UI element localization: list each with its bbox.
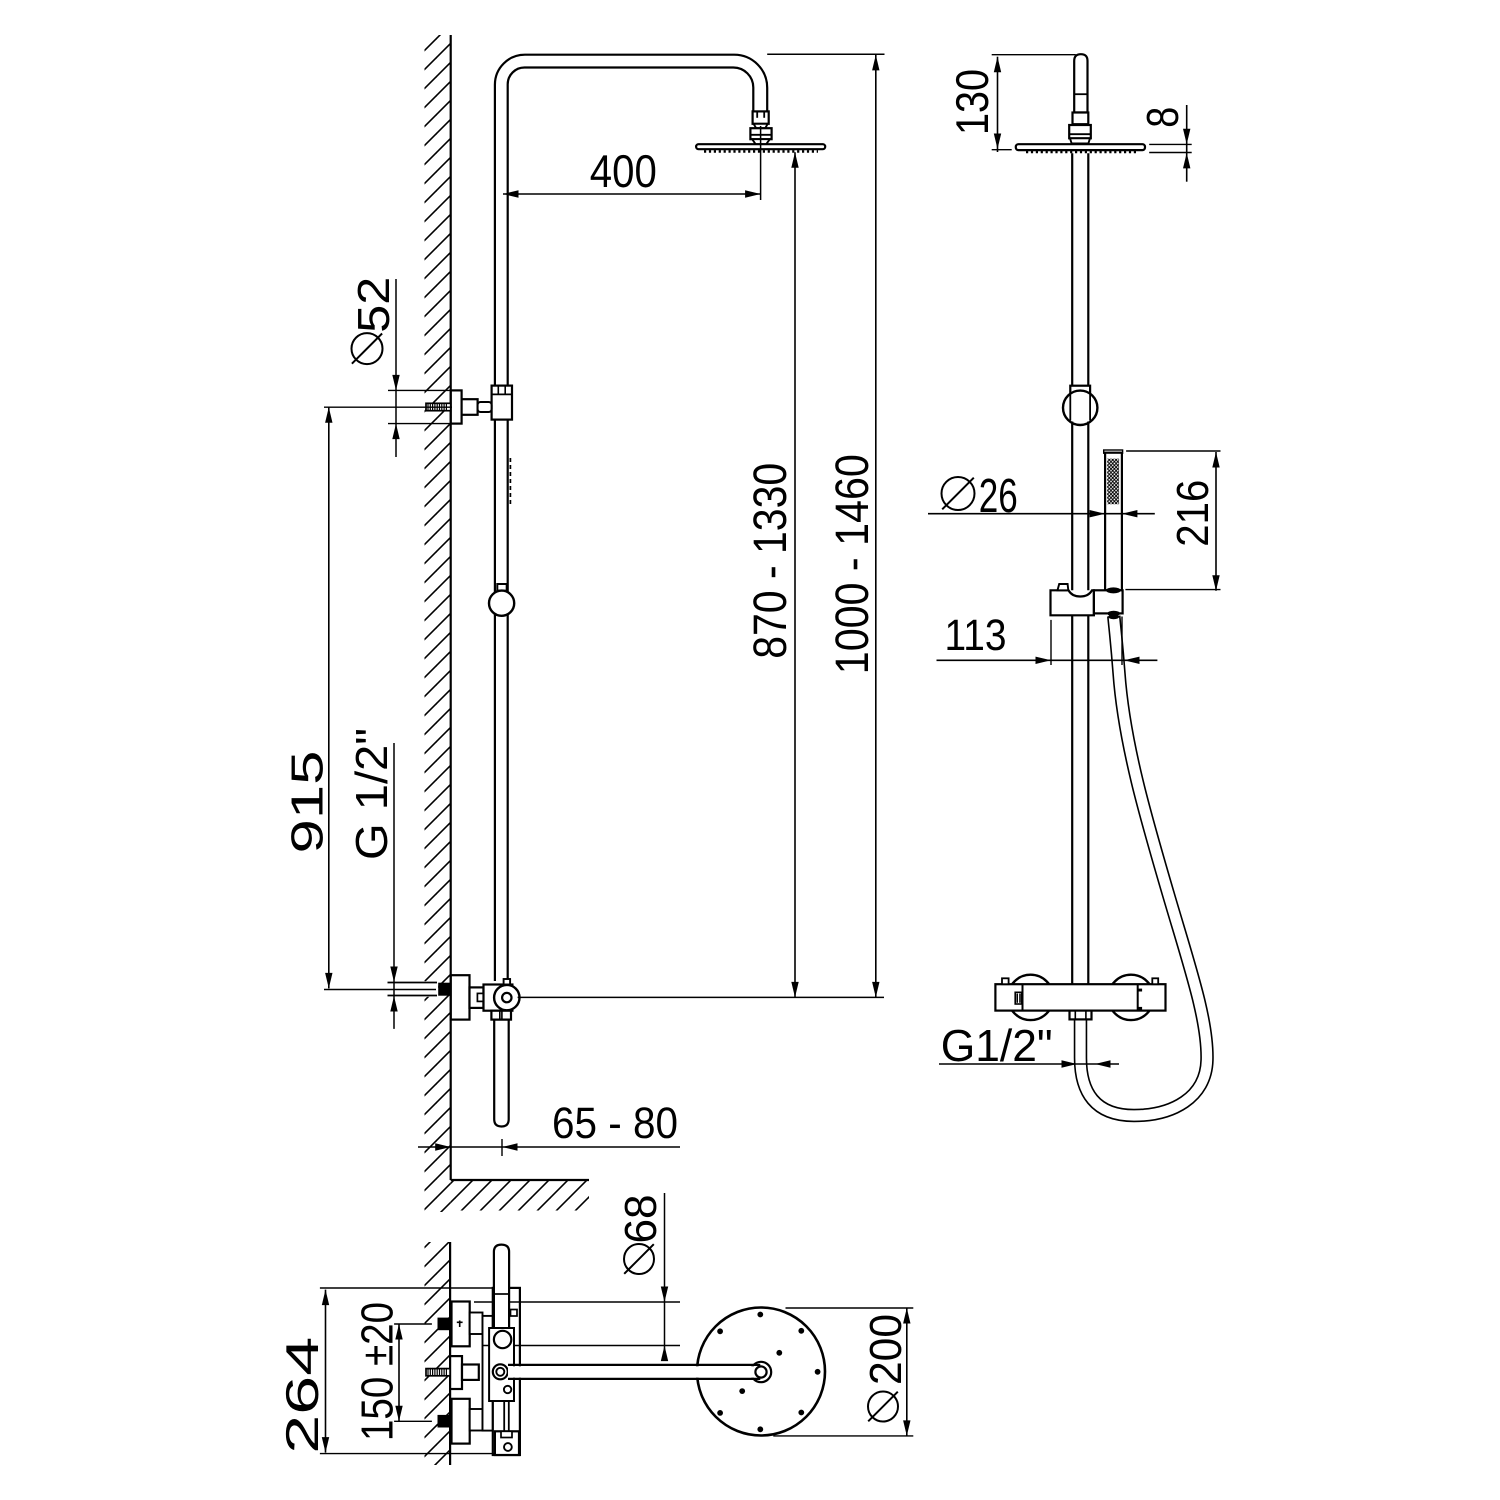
wall bracket ball joint (front view) [1063,391,1097,425]
top extension line (column top) [767,53,884,55]
svg-text:915: 915 [282,751,333,854]
riser pipe lower segment (front view) [1072,615,1088,984]
dimension 130 text [946,69,998,135]
shower head swivel cone [754,124,768,128]
hot inlet block (plan view) [452,1302,470,1347]
valve cartridge circle (side view) [494,985,519,1010]
valve wall inlet (black, side view) [438,983,451,996]
shower head nozzle row (side view) [704,150,818,153]
shower arm (plan view) [508,1365,760,1379]
dimension 264 line [320,1288,495,1454]
dimension Ø26 line [928,510,1155,517]
slider holder right block (front view) [1094,590,1123,613]
dimension G 1/2" label (side view) [346,728,397,860]
wall bracket escutcheon [451,390,462,423]
valve inlet nipple lines (side view) [388,981,439,997]
wall bracket stem [462,399,478,415]
wall bracket collar (front view) [1070,386,1090,394]
arm connection inner circle (plan view) [755,1366,766,1377]
svg-text:216: 216 [1167,480,1218,547]
dimension G1/2" line (front view) [939,1060,1119,1067]
head connector nut (front view) [1069,125,1091,143]
wall section hatching (plan view) [425,1242,451,1465]
svg-text:1000 - 1460: 1000 - 1460 [825,454,878,674]
dimension Ø200 line [773,1308,913,1436]
dimension G1/2" text (front view) [941,1020,1053,1071]
hot wall inlet (black, plan view) [438,1318,451,1331]
thermostat body (front view) [995,984,1165,1010]
handle pivot circle (plan view) [494,1331,511,1348]
riser pipe upper segment (front view) [1072,153,1088,385]
wand to hose connector (dark) [1108,611,1120,619]
slider holder left block (front view) [1051,590,1094,615]
dimension 216 line [1125,451,1220,591]
svg-text:65 - 80: 65 - 80 [552,1099,678,1148]
right knob marks [1138,989,1142,1010]
thermostat left knob (front view) [1008,975,1053,1020]
valve lever handle (plan view) [494,1245,509,1331]
svg-text:264: 264 [276,1337,328,1454]
valve escutcheon (side view) [451,975,470,1019]
valve cartridge inner circle [502,993,511,1002]
dimension 8 line [1149,105,1192,182]
slider holder knob (side view) [489,591,514,616]
dimension 113 line [937,617,1158,666]
dimension 1000 - 1460 line [872,55,879,998]
valve body plate (plan view) [493,1288,520,1455]
dimension 1000 - 1460 text [825,454,878,674]
outlet ring outer (plan view) [493,1364,508,1379]
valve pipe tab (side view) [504,979,511,985]
wall anchor screw (upper) [426,403,451,412]
hand shower wand hidden edge (side view) [509,458,511,504]
hand shower wand cap (front view) [1104,450,1123,453]
dimension 65 - 80 text [552,1099,678,1148]
wand end in holder (dark) [1106,587,1121,593]
wall bracket clamp block [492,386,512,420]
wall face line (plan view) [449,1242,451,1465]
valve stem (plan view) [462,1365,479,1380]
svg-text:400: 400 [590,145,657,197]
svg-text:G 1/2": G 1/2" [346,728,397,860]
hand shower hose core [1081,616,1208,1116]
hot indicator mark [457,1321,463,1328]
wall section hatching (side view) [425,35,451,1212]
riser pipe middle segment (front view) [1072,422,1088,591]
wall face line (side view) [450,35,452,1180]
svg-text:52: 52 [348,277,399,333]
slider holder tab (front view) [1058,584,1069,590]
thermostat right knob (front view) [1108,975,1153,1020]
hand shower hose outer [1081,616,1208,1116]
dimension 65 - 80 line [418,1139,680,1156]
dimension 150 ±20 text [352,1302,403,1441]
thermostat left tab [1002,978,1009,984]
shower head disc (side view) [696,144,825,149]
valve body (side view) [484,985,513,1011]
floor line [451,1179,589,1181]
shower head disc (front view) [1016,144,1145,150]
valve body inner strip (plan view) [483,1316,493,1431]
cold inlet block (plan view) [452,1399,470,1444]
dimension 400 line [503,190,761,197]
dimension 216 text [1167,480,1218,547]
svg-text:130: 130 [946,69,998,135]
svg-text:8: 8 [1137,107,1188,128]
valve escutcheon (plan view) [450,1356,462,1389]
floor hatching [451,1180,589,1211]
outlet ring inner (plan view) [496,1368,504,1376]
thermostat body end cap lines [1023,984,1138,1010]
hose outlet nut (front view) [1070,1011,1092,1020]
shower head connector nut (side view) [750,128,771,144]
shower arm extension lines (plan view) [474,1302,680,1346]
shower head disc (plan view) [697,1308,825,1436]
inlet stub upper (plan view) [470,1313,483,1335]
dimension 870 - 1330 text [743,463,796,659]
dimension Ø68 line [661,1193,668,1361]
dimension 400 text [590,145,657,197]
riser pipe and shower arm inner contour [508,68,754,982]
valve stub notch [477,993,483,1001]
shower head nozzle row (front view) [1026,151,1136,154]
hand shower wand (front view) [1105,453,1122,591]
dimension Ø68 label [615,1195,666,1275]
shower head centre line [760,126,762,200]
bottom bracket (plan view) [495,1431,519,1455]
dimension Ø52 extension and arrows [388,279,451,457]
svg-text:113: 113 [945,611,1007,660]
shower head nozzle holes (plan view) [717,1312,820,1433]
wall anchor screw (plan view) [426,1368,450,1377]
svg-text:870 - 1330: 870 - 1330 [743,463,796,659]
head collar (front view) [1073,113,1089,125]
dimension 870 - 1330 line [791,152,798,997]
dimension 113 text [945,611,1007,660]
dimension Ø26 label [942,470,1018,523]
cold wall inlet (black, plan view) [438,1415,451,1428]
dimension G 1/2" arrows (side view) [390,743,397,1029]
handle hidden stem (plan view) [504,1401,509,1431]
ball joint chords [1070,394,1090,420]
riser pipe and shower arm outer contour [495,55,767,981]
dimension Ø200 label [860,1314,911,1422]
thermostat right tab [1152,978,1158,984]
svg-text:200: 200 [860,1314,911,1385]
wall bracket stub [478,402,492,412]
small screw circle (plan view) [504,1386,511,1393]
svg-text:68: 68 [615,1195,666,1244]
dimension 915 line [324,407,452,989]
inlet stub lower (plan view) [470,1409,483,1431]
valve lever handle (side view) [494,1020,509,1127]
temperature safety button [1015,992,1022,1004]
svg-text:150 ±20: 150 ±20 [352,1302,403,1441]
slider holder tab (side view) [497,584,506,591]
valve plate tab (plan view) [511,1310,518,1317]
svg-text:26: 26 [979,470,1018,523]
dimension 130 line [992,55,1076,152]
dimension 150 ±20 line [394,1324,432,1421]
shower head swivel joint [753,111,769,123]
valve stub (side view) [470,987,484,1008]
dimension Ø52 label [348,277,399,364]
column top stub (front view) [1074,54,1087,112]
dimension 915 text [282,751,333,854]
arm connection ring (plan view) [751,1362,771,1382]
valve cartridge housing (plan view) [489,1328,514,1401]
hand shower spray face [1107,459,1119,505]
valve centre extension line [518,996,884,998]
dimension 8 text [1137,107,1188,128]
dimension 264 text [276,1337,328,1454]
valve outlet nut (side view) [491,1011,511,1020]
